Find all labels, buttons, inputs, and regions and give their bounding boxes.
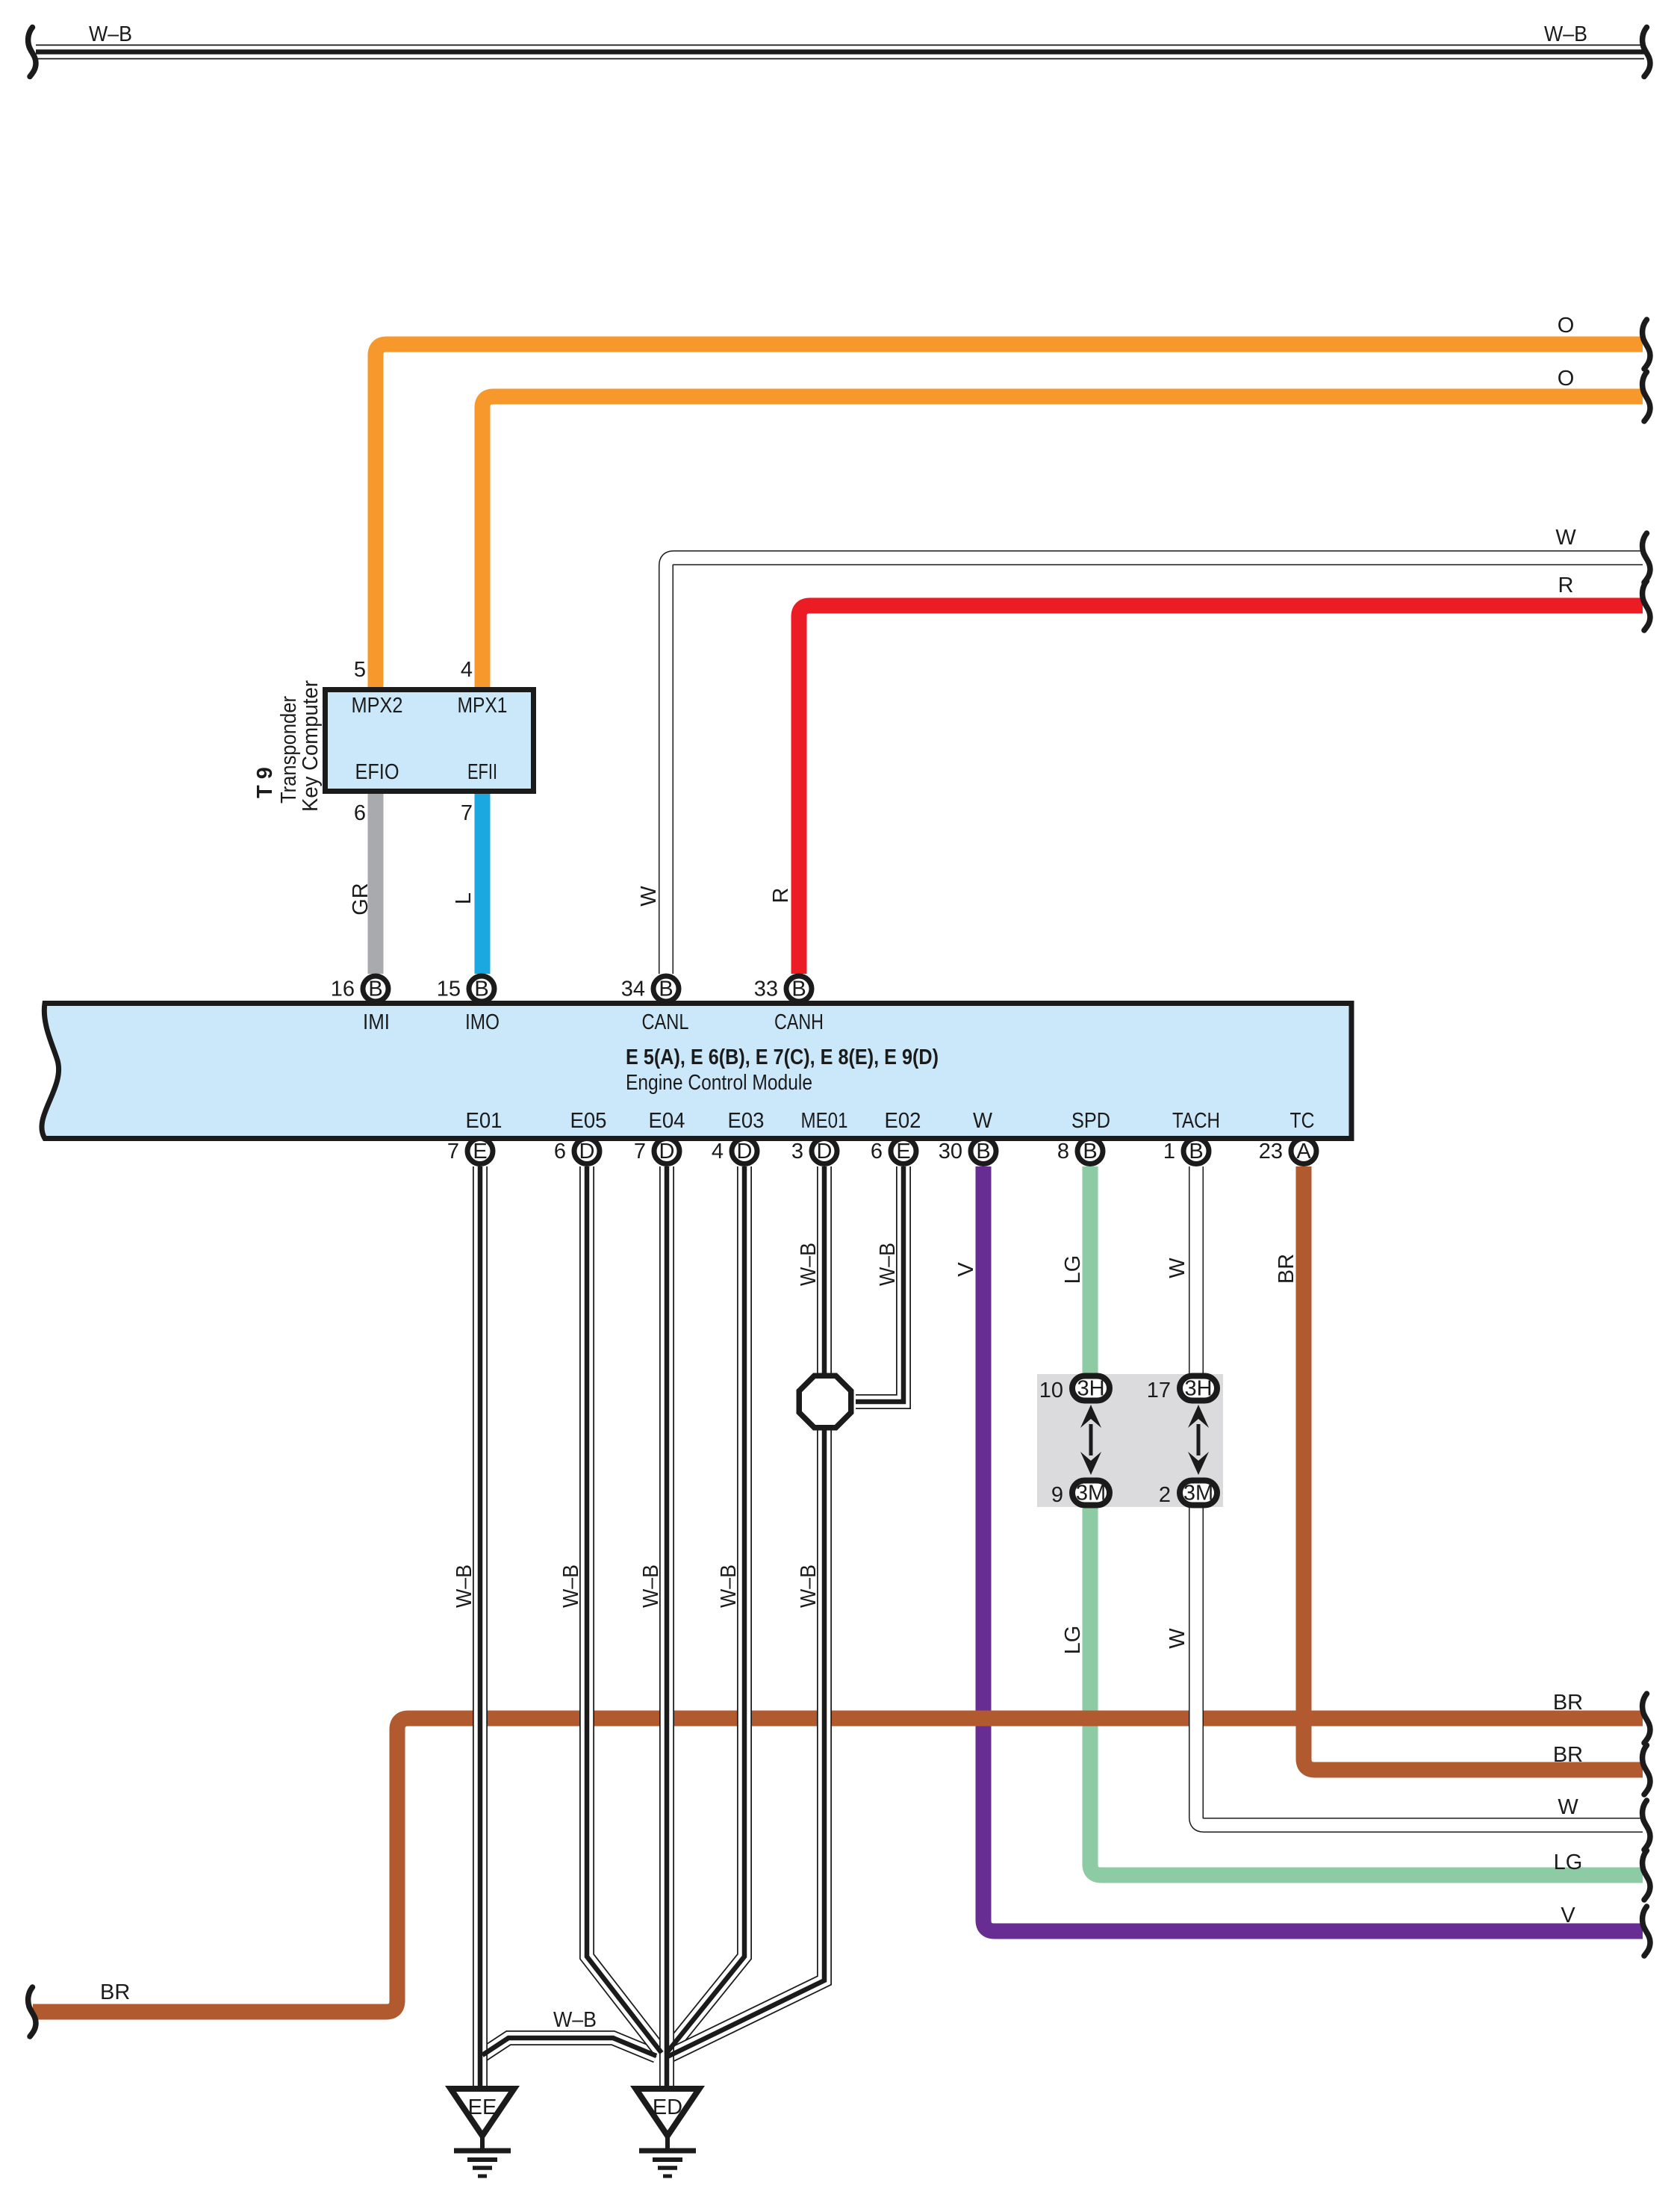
svg-text:E03: E03	[728, 1109, 765, 1133]
ECM bottom connector pin 3 (D)	[812, 1139, 837, 1164]
svg-text:IMI: IMI	[363, 1010, 390, 1034]
pin label EFIO	[355, 760, 399, 784]
svg-text:3M: 3M	[1183, 1482, 1213, 1505]
svg-text:D: D	[817, 1140, 833, 1163]
pin number 23	[1259, 1140, 1283, 1163]
svg-text:2: 2	[1159, 1483, 1171, 1507]
ECM top connector pin 16 (B)	[363, 976, 388, 1001]
svg-text:6: 6	[554, 1140, 566, 1163]
svg-text:16: 16	[331, 978, 355, 1001]
svg-text:W: W	[1555, 526, 1576, 550]
svg-text:W: W	[1166, 1628, 1189, 1649]
label R right edge	[1558, 574, 1574, 597]
pin number 10	[1039, 1379, 1063, 1402]
pin label MPX1	[458, 694, 508, 718]
pin number 7	[461, 801, 473, 825]
wire GR gray from EFIO pin 6 to ECM pin 16	[368, 794, 384, 974]
svg-text:5: 5	[354, 658, 366, 682]
svg-text:GR: GR	[349, 883, 373, 916]
label W right edge	[1555, 526, 1576, 550]
svg-text:B: B	[474, 978, 488, 1001]
label W-B on E02 wire	[876, 1243, 900, 1286]
svg-text:E02: E02	[885, 1109, 921, 1133]
svg-text:6: 6	[871, 1140, 883, 1163]
wire W-B from ECM pin 6 E02 to junction	[856, 1166, 903, 1402]
ECM pin label E03	[728, 1109, 765, 1133]
ECM bottom connector pin 6 (E)	[891, 1139, 916, 1164]
svg-text:E 5(A), E 6(B), E 7(C), E 8(E): E 5(A), E 6(B), E 7(C), E 8(E), E 9(D)	[626, 1045, 939, 1069]
svg-text:EFII: EFII	[467, 760, 497, 784]
continuation symbol BR left	[28, 1987, 36, 2036]
ECM title line 2	[626, 1071, 812, 1095]
svg-text:E: E	[896, 1140, 910, 1163]
connector pin 10 (3H)	[1072, 1376, 1110, 1401]
pin number 17	[1147, 1379, 1171, 1402]
svg-text:W–B: W–B	[797, 1243, 821, 1286]
svg-text:B: B	[791, 978, 806, 1001]
continuation symbol W right	[1643, 1800, 1650, 1850]
wire W-B from ECM pin 3 ME01 through junction to ED ground	[668, 1166, 824, 2057]
pin number 4	[461, 658, 473, 682]
svg-text:3H: 3H	[1077, 1377, 1104, 1401]
svg-text:Transponder: Transponder	[277, 696, 301, 804]
ECM pin label IMI	[363, 1010, 390, 1034]
pin number 15	[437, 978, 461, 1001]
svg-text:ME01: ME01	[801, 1109, 848, 1133]
label W-B (rotated)	[639, 1564, 663, 1608]
label W-B on ground branch	[553, 2008, 597, 2032]
ECM pin label ME01	[801, 1109, 848, 1133]
pin number 6	[354, 801, 366, 825]
label W-B top right	[1544, 22, 1587, 46]
continuation symbol W-B left	[28, 28, 36, 77]
label W lower (rotated)	[1166, 1628, 1189, 1649]
ECM bottom connector pin 4 (D)	[732, 1139, 757, 1164]
svg-text:4: 4	[712, 1140, 724, 1163]
pin number 6	[554, 1140, 566, 1163]
ECM pin label TC	[1290, 1109, 1315, 1133]
svg-text:E: E	[473, 1140, 487, 1163]
pin number 3	[791, 1140, 803, 1163]
continuation symbol O upper	[1643, 320, 1650, 369]
svg-text:8: 8	[1057, 1140, 1069, 1163]
ECM pin label TACH	[1172, 1109, 1220, 1133]
continuation symbol W right	[1643, 533, 1650, 582]
ECM bottom connector pin 6 (D)	[574, 1139, 600, 1164]
label LG right edge	[1554, 1851, 1583, 1874]
svg-text:E05: E05	[570, 1109, 607, 1133]
wire O orange from MPX1 pin 4	[482, 397, 1643, 687]
pin number 5	[354, 658, 366, 682]
svg-text:15: 15	[437, 978, 461, 1001]
svg-text:D: D	[659, 1140, 675, 1163]
svg-text:TACH: TACH	[1172, 1109, 1220, 1133]
pin number 7	[447, 1140, 459, 1163]
pin label EFII	[467, 760, 497, 784]
ECM pin label CANL	[642, 1010, 689, 1034]
svg-text:7: 7	[461, 801, 473, 825]
svg-text:W: W	[973, 1109, 993, 1133]
svg-text:17: 17	[1147, 1379, 1171, 1402]
ECM bottom connector pin 30 (B)	[971, 1139, 996, 1164]
component T9 Transponder Key Computer box	[326, 690, 534, 792]
svg-text:SPD: SPD	[1071, 1109, 1110, 1133]
wire O orange from MPX2 pin 5	[376, 344, 1643, 687]
svg-text:W–B: W–B	[553, 2008, 597, 2032]
connector pin 2 (3M)	[1180, 1481, 1217, 1505]
pin number 1	[1163, 1140, 1175, 1163]
svg-text:O: O	[1558, 367, 1575, 391]
svg-text:BR: BR	[1275, 1254, 1298, 1284]
svg-text:W: W	[1558, 1795, 1578, 1819]
svg-text:9: 9	[1051, 1483, 1063, 1507]
wire L blue from EFII pin 7 to ECM pin 15	[475, 794, 491, 974]
label O upper	[1558, 314, 1575, 338]
continuation symbol O lower	[1643, 372, 1650, 421]
svg-text:T 9: T 9	[253, 767, 277, 798]
pin number 33	[754, 978, 778, 1001]
pin number 7	[634, 1140, 646, 1163]
pin number 8	[1057, 1140, 1069, 1163]
wire W-B top horizontal	[36, 52, 1644, 53]
label GR (rotated)	[349, 883, 373, 916]
svg-text:CANL: CANL	[642, 1010, 689, 1034]
wire W-B branch between EE and ED grounds	[482, 2038, 656, 2056]
wire LG light green from ECM pin 8 SPD through connector 3H/3M to right edge	[1090, 1166, 1643, 1875]
wire W-B from ECM pin 7 E04 to ED ground	[666, 1166, 668, 2086]
svg-text:B: B	[368, 978, 382, 1001]
ECM top connector pin 34 (B)	[653, 976, 679, 1001]
label L (rotated)	[452, 892, 476, 904]
label W-B (rotated)	[717, 1564, 741, 1608]
svg-text:R: R	[1558, 574, 1574, 597]
component name Transponder (rotated)	[277, 696, 301, 804]
svg-text:MPX1: MPX1	[458, 694, 508, 718]
svg-text:LG: LG	[1554, 1851, 1583, 1874]
label V right edge	[1561, 1904, 1575, 1927]
svg-text:7: 7	[634, 1140, 646, 1163]
continuation symbol BR right	[1643, 1694, 1650, 1743]
label W-B (rotated)	[797, 1564, 821, 1608]
label O lower	[1558, 367, 1575, 391]
continuation symbol W-B right	[1643, 28, 1650, 77]
ECM title line bold	[626, 1045, 939, 1069]
svg-text:A: A	[1296, 1140, 1311, 1163]
component Engine Control Module box E5(A) E6(B) E7(C) E8(E) E9(D)	[42, 1004, 1351, 1139]
continuation symbol R right	[1643, 581, 1650, 630]
label W-B (rotated)	[452, 1564, 476, 1608]
svg-text:W–B: W–B	[639, 1564, 663, 1608]
ground EE	[451, 2089, 514, 2176]
pin number 16	[331, 978, 355, 1001]
svg-text:34: 34	[621, 978, 645, 1001]
wire W white from ECM pin 1 TACH through connector to right edge	[1196, 1166, 1643, 1825]
svg-text:W: W	[1166, 1258, 1189, 1278]
svg-text:D: D	[579, 1140, 595, 1163]
svg-text:1: 1	[1163, 1140, 1175, 1163]
svg-text:MPX2: MPX2	[352, 694, 403, 718]
svg-text:EE: EE	[468, 2095, 497, 2119]
svg-text:O: O	[1558, 314, 1575, 338]
label R (rotated)	[769, 888, 793, 904]
wire W-B from ECM pin 4 E03 to ED ground	[666, 1166, 744, 2054]
svg-text:E01: E01	[466, 1109, 503, 1133]
ECM bottom connector pin 23 (A)	[1291, 1139, 1316, 1164]
svg-text:B: B	[976, 1140, 990, 1163]
ECM pin label E05	[570, 1109, 607, 1133]
svg-text:BR: BR	[100, 1980, 130, 2004]
label W on CANL wire (rotated)	[637, 886, 661, 907]
wire W-B center stripes	[480, 1166, 824, 2089]
svg-text:3: 3	[791, 1140, 803, 1163]
label W-B (rotated)	[559, 1564, 583, 1608]
wire R red from ECM pin 33 CANH to right edge	[799, 606, 1643, 974]
label BR (rotated)	[1275, 1254, 1298, 1284]
svg-text:6: 6	[354, 801, 366, 825]
svg-text:W–B: W–B	[717, 1564, 741, 1608]
svg-text:10: 10	[1039, 1379, 1063, 1402]
ECM top connector pin 15 (B)	[469, 976, 494, 1001]
svg-text:CANH: CANH	[774, 1010, 824, 1034]
svg-text:V: V	[1561, 1904, 1575, 1927]
svg-text:TC: TC	[1290, 1109, 1315, 1133]
pin number 4	[712, 1140, 724, 1163]
svg-text:3M: 3M	[1076, 1482, 1106, 1505]
reference designator T 9 (rotated)	[253, 767, 277, 798]
ECM bottom connector pin 7 (D)	[654, 1139, 679, 1164]
svg-text:EFIO: EFIO	[355, 760, 399, 784]
svg-text:23: 23	[1259, 1140, 1283, 1163]
svg-text:33: 33	[754, 978, 778, 1001]
label BR bottom left	[100, 1980, 130, 2004]
svg-text:W–B: W–B	[559, 1564, 583, 1608]
svg-text:Key Computer: Key Computer	[299, 680, 323, 812]
ECM pin label SPD	[1071, 1109, 1110, 1133]
ECM pin label CANH	[774, 1010, 824, 1034]
continuation symbol V right	[1643, 1907, 1650, 1956]
pin number 6	[871, 1140, 883, 1163]
svg-text:Engine Control Module: Engine Control Module	[626, 1071, 812, 1095]
wire W-B from ECM pin 6 E05 to ED ground	[587, 1166, 662, 2053]
svg-text:W–B: W–B	[89, 22, 132, 46]
svg-text:W–B: W–B	[797, 1564, 821, 1608]
connector pin 17 (3H)	[1180, 1376, 1217, 1401]
svg-text:4: 4	[461, 658, 473, 682]
wire W-B from ECM pin 7 E01 to EE ground	[479, 1166, 481, 2089]
ECM pin label IMO	[465, 1010, 500, 1034]
wire BR brown from left edge up and right to right edge	[33, 1718, 1643, 2012]
svg-text:B: B	[659, 978, 673, 1001]
svg-text:W–B: W–B	[876, 1243, 900, 1286]
ECM bottom connector pin 7 (E)	[467, 1139, 493, 1164]
svg-text:ED: ED	[653, 2095, 682, 2119]
ECM top connector pin 33 (B)	[786, 976, 812, 1001]
svg-text:W–B: W–B	[452, 1564, 476, 1608]
svg-text:B: B	[1189, 1140, 1203, 1163]
svg-text:W: W	[637, 886, 661, 907]
label BR right edge	[1553, 1691, 1583, 1715]
label LG lower (rotated)	[1061, 1626, 1085, 1655]
ECM pin label E01	[466, 1109, 503, 1133]
continuation symbol BR right	[1643, 1745, 1650, 1795]
wire W white from ECM pin 34 CANL to right edge	[666, 558, 1643, 974]
junction octagon on ME01 wire	[799, 1376, 851, 1428]
ECM pin label W	[973, 1109, 993, 1133]
pin number 2	[1159, 1483, 1171, 1507]
pin number 30	[939, 1140, 962, 1163]
label BR right edge	[1553, 1743, 1583, 1767]
svg-text:L: L	[452, 892, 476, 904]
label W-B on ME01 wire upper	[797, 1243, 821, 1286]
double arrow between 3H and 3M	[1080, 1405, 1101, 1475]
label V (rotated)	[954, 1262, 978, 1277]
connector block 3H/3M gray background	[1037, 1374, 1223, 1507]
pin label MPX2	[352, 694, 403, 718]
label W upper (rotated)	[1166, 1258, 1189, 1278]
ECM bottom connector pin 8 (B)	[1077, 1139, 1103, 1164]
svg-text:BR: BR	[1553, 1743, 1583, 1767]
continuation symbol LG right	[1643, 1851, 1650, 1900]
svg-text:7: 7	[447, 1140, 459, 1163]
component name Key Computer (rotated)	[299, 680, 323, 812]
pin number 34	[621, 978, 645, 1001]
svg-text:LG: LG	[1061, 1626, 1085, 1655]
svg-text:BR: BR	[1553, 1691, 1583, 1715]
wire V violet from ECM pin 30 W to right edge	[983, 1166, 1643, 1931]
svg-text:IMO: IMO	[465, 1010, 500, 1034]
ground ED	[636, 2089, 700, 2176]
ECM pin label E04	[649, 1109, 685, 1133]
svg-text:B: B	[1083, 1140, 1097, 1163]
svg-text:30: 30	[939, 1140, 962, 1163]
svg-text:D: D	[737, 1140, 753, 1163]
double arrow between 3H and 3M	[1188, 1405, 1209, 1475]
wire BR brown from ECM pin 23 TC to right edge	[1304, 1166, 1643, 1770]
pin number 9	[1051, 1483, 1063, 1507]
svg-text:E04: E04	[649, 1109, 685, 1133]
svg-text:V: V	[954, 1262, 978, 1277]
svg-text:R: R	[769, 888, 793, 904]
label W right edge	[1558, 1795, 1578, 1819]
label W-B top left	[89, 22, 132, 46]
label LG upper (rotated)	[1061, 1255, 1085, 1284]
connector pin 9 (3M)	[1072, 1481, 1110, 1505]
svg-text:W–B: W–B	[1544, 22, 1587, 46]
svg-text:LG: LG	[1061, 1255, 1085, 1284]
svg-text:3H: 3H	[1184, 1377, 1212, 1401]
ECM bottom connector pin 1 (B)	[1183, 1139, 1209, 1164]
ECM pin label E02	[885, 1109, 921, 1133]
